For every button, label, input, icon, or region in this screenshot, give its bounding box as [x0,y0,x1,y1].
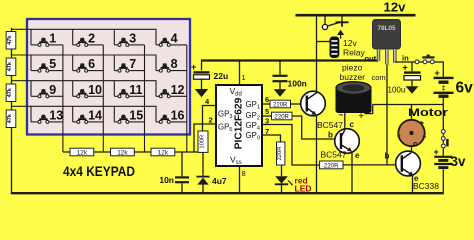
switch S15 keypad button 15 [114,106,144,123]
svg-text:9: 9 [49,83,56,97]
transistor Q1 BC547 [301,91,326,116]
wire Q1 collector to relay [316,16,318,93]
switch push-button S17 [415,55,434,64]
svg-text:1: 1 [49,32,56,46]
svg-text:7: 7 [265,127,269,136]
wire Q2 emitter to 0V [351,152,353,193]
wire 47k ladder vertical [11,28,13,193]
zener D1 4u7 [197,153,210,194]
wire motor to Q3 collector [411,147,413,152]
switch S5 keypad button 5 [31,55,63,72]
svg-text:+: + [403,63,408,73]
switch S10 keypad button 10 [73,81,104,98]
wire Q3 emitter to 0V [412,176,414,193]
svg-text:10: 10 [88,83,102,97]
ground 100n [274,89,287,97]
keypad box [27,19,190,135]
transistor Q3 BC338 [396,151,421,176]
switch S16 keypad button 16 [156,106,187,123]
svg-text:−: − [339,111,344,120]
wire node to 3v switch [442,105,444,130]
wire 12V rail [296,14,416,17]
svg-text:100n: 100n [288,79,307,89]
resistor R8 100R [198,131,208,152]
svg-text:47k: 47k [7,87,13,97]
wire GP2 pin5 [262,115,272,117]
svg-text:100u: 100u [388,85,406,94]
svg-text:2: 2 [88,32,95,46]
svg-text:c: c [413,140,418,149]
battery B2 3v [434,148,452,192]
transistor Q2 BC547 [335,129,360,154]
svg-text:14: 14 [88,109,102,123]
svg-text:in: in [402,54,409,63]
svg-text:+: + [434,147,439,157]
switch S3 keypad button 3 [114,29,144,46]
relay contact [322,16,348,39]
resistor R1 47k [6,32,16,50]
svg-text:47k: 47k [7,61,13,71]
svg-text:LED: LED [295,184,312,194]
switch S4 keypad button 4 [156,29,187,46]
svg-text:78L05: 78L05 [377,25,396,32]
svg-text:220R: 220R [275,114,290,120]
wire R12 to Q3 base [343,164,396,166]
switch S12 keypad button 12 [156,81,187,98]
svg-text:1: 1 [242,73,246,82]
svg-text:piezo: piezo [342,63,363,73]
svg-text:15: 15 [129,109,143,123]
wire 12k chain [63,151,203,153]
svg-text:47k: 47k [7,113,13,123]
svg-text:b: b [328,131,333,140]
ground 22u [195,89,208,97]
svg-text:buzzer: buzzer [340,72,366,82]
wire 5V rail [201,59,379,61]
wire GP3 pin4 to 100R [203,106,217,132]
svg-text:PIC12F629: PIC12F629 [234,97,245,149]
svg-text:220R: 220R [277,147,283,161]
wire buzzer plus to node [365,105,373,114]
svg-text:4: 4 [171,32,178,46]
switch S13 keypad button 13 [31,106,63,123]
wire keypad row lines [12,29,157,106]
switch S7 keypad button 7 [114,55,144,72]
svg-text:b: b [385,152,390,161]
battery B1 6v [434,78,454,96]
wire Q2 collector to buzzer [344,111,346,130]
resistor R2 47k [6,58,16,76]
resistor R5 12k [70,148,94,156]
svg-text:11: 11 [129,83,142,97]
resistor R11 220R vertical [277,142,285,165]
svg-text:+: + [435,68,440,78]
svg-text:4u7: 4u7 [212,176,227,186]
capacitor C3 10n [175,152,189,193]
svg-text:e: e [414,174,419,183]
resistor R9 220R [270,100,291,108]
svg-text:4x4 KEYPAD: 4x4 KEYPAD [63,163,135,179]
switch S8 keypad button 8 [156,55,187,72]
motor M1 [398,120,426,146]
wire keypad column lines [63,45,187,152]
resistor R4 47k [6,110,16,128]
resistor R3 47k [6,84,16,102]
switch S1 keypad button 1 [31,29,63,46]
svg-text:47k: 47k [7,35,13,45]
svg-text:12v: 12v [343,38,357,48]
wire motor top [411,105,413,121]
svg-text:12k: 12k [158,149,169,156]
svg-text:2: 2 [209,116,213,125]
label red LED [295,176,312,194]
switch S9 keypad button 9 [31,81,63,98]
wire 6v to node [442,98,444,105]
switch S18 changeover [441,130,448,148]
svg-text:220R: 220R [324,162,339,169]
svg-text:com: com [372,73,386,82]
capacitor C2 100n [273,61,288,90]
svg-text:7: 7 [129,57,136,71]
wire R10 to Q2 base [292,116,335,139]
relay coil RLA [317,37,339,58]
svg-text:6: 6 [88,57,95,71]
regulator U2 78L05 [373,20,401,65]
piezo buzzer BZ1 [336,82,371,113]
wire R9 to Q1 base [291,103,302,105]
svg-text:c: c [350,120,355,129]
wire positive node rail [373,104,444,106]
switch S6 keypad button 6 [73,55,104,72]
label piezo buzzer [340,63,366,83]
svg-text:BC547: BC547 [321,150,347,160]
resistor R12 220R [320,161,344,169]
svg-text:12k: 12k [77,149,88,156]
wire Vss pin8 [239,166,241,193]
svg-text:8: 8 [171,57,178,71]
svg-text:+: + [191,62,196,72]
svg-text:3v: 3v [451,154,467,169]
capacitor C4 100u [404,63,421,87]
svg-text:3: 3 [129,32,136,46]
resistor R6 12k [111,148,135,156]
svg-text:+: + [359,111,364,121]
wire Vdd pin1 [239,61,241,85]
resistor R7 12k [151,148,175,156]
svg-text:6: 6 [265,95,269,104]
switch S11 keypad button 11 [114,81,144,98]
svg-text:8: 8 [242,169,246,178]
LED D2 red [275,165,293,193]
svg-text:12v: 12v [384,0,407,15]
wire GP5 pin2 to chain [194,124,216,152]
switch S14 keypad button 14 [73,106,104,123]
svg-text:5: 5 [49,57,56,71]
svg-text:16: 16 [171,109,185,123]
wire com leg to Q3 base [386,65,388,165]
capacitor C1 22u [194,61,210,90]
wire GP0 pin7 [262,135,281,142]
svg-text:BC547: BC547 [317,120,343,130]
wire in to battery [395,62,444,77]
svg-text:100R: 100R [200,135,206,149]
svg-text:6v: 6v [456,80,474,97]
svg-text:3: 3 [265,117,269,126]
svg-text:220R: 220R [273,102,288,108]
svg-text:Relay: Relay [343,48,365,58]
svg-text:out: out [365,54,377,63]
wire Q1 emitter to 0V [316,115,318,193]
wire GP4 pin3 [262,125,320,166]
svg-text:e: e [355,151,360,160]
resistor R10 220R [272,112,293,120]
ground 100u [406,86,419,94]
switch S2 keypad button 2 [73,29,104,46]
wire GP1 pin6 [262,103,270,105]
wire 0V bottom rail [11,192,444,194]
svg-text:13: 13 [49,109,63,123]
svg-text:12: 12 [171,83,185,97]
svg-text:22u: 22u [214,71,229,81]
svg-text:5: 5 [265,107,269,116]
svg-text:12k: 12k [117,149,128,156]
label 12v Relay [343,38,365,58]
IC U1 PIC12F629 body [216,85,262,166]
svg-text:10n: 10n [159,175,174,185]
